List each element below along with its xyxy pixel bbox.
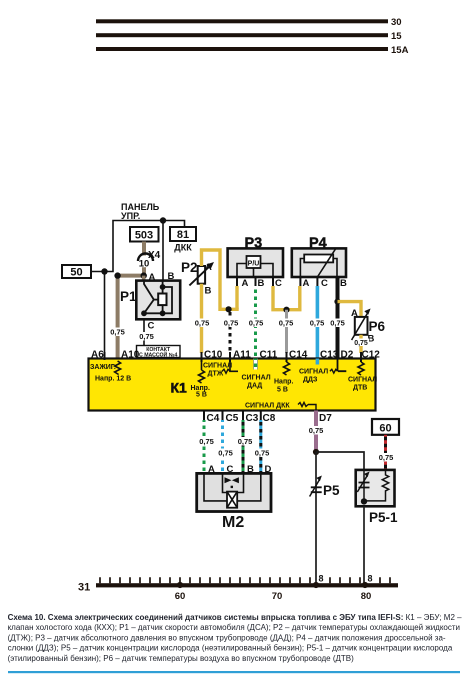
svg-text:СИГНАЛ ДКК: СИГНАЛ ДКК [245, 403, 290, 410]
bus junction dots [177, 582, 183, 588]
wire: C4 to M2 A (green/white) [203, 420, 206, 473]
svg-text:P1: P1 [120, 289, 137, 304]
svg-text:СИГНАЛ: СИГНАЛ [299, 369, 328, 376]
node D7 [313, 449, 319, 455]
svg-text:B: B [340, 278, 347, 289]
wire: C5 to M2 C (cyan/white) [221, 420, 224, 473]
svg-text:С5: С5 [226, 413, 239, 424]
svg-text:0,75: 0,75 [330, 319, 345, 328]
oxygen sensor P5 [310, 476, 340, 499]
divider line [8, 671, 460, 673]
bus position labels [175, 591, 372, 602]
wire: C3 to M2 B (green/black) [242, 420, 245, 473]
svg-text:5 В: 5 В [196, 392, 207, 399]
valve bowtie [225, 477, 239, 483]
box 503 [130, 227, 159, 242]
svg-text:0,75: 0,75 [195, 319, 210, 328]
node on D2 wire [334, 299, 340, 305]
node junction on panel feed [160, 217, 166, 223]
svg-text:A: A [205, 262, 212, 273]
svg-text:M2: M2 [222, 514, 244, 531]
svg-text:P6: P6 [369, 319, 386, 334]
wire: node to P6 (yellow) [338, 302, 362, 317]
svg-text:ДАД: ДАД [247, 383, 262, 390]
svg-text:К1: К1 [171, 380, 188, 396]
svg-text:503: 503 [135, 230, 153, 242]
M2 terminal letters [208, 464, 272, 475]
svg-text:0,75: 0,75 [238, 437, 253, 446]
wire: P6 B to C12 (yellow) [359, 335, 362, 353]
svg-text:С11: С11 [260, 350, 278, 361]
svg-text:C: C [148, 321, 155, 332]
svg-text:УПР.: УПР. [121, 211, 140, 221]
wire: node to A11 (black/white stripe) [229, 312, 232, 353]
bus bar 15A [96, 45, 409, 56]
wire: P2 B to C10 (yellow) [200, 284, 203, 353]
wire: connector to node A (brown) [142, 267, 146, 276]
svg-text:С3: С3 [246, 413, 259, 424]
svg-text:C: C [321, 278, 328, 289]
wire: P5-1 to bus [363, 506, 365, 585]
node A of P1 [141, 272, 147, 278]
caption text [8, 613, 463, 663]
svg-text:0,75: 0,75 [139, 332, 154, 341]
wire: P3 B to C11 (green/white stripe) [254, 286, 257, 359]
svg-text:А6: А6 [91, 350, 104, 361]
air temp sensor P6 [351, 308, 386, 345]
K1 pin labels top [91, 350, 380, 361]
wire A into P1 [142, 276, 146, 282]
node: P2/P3 to A11 [226, 306, 232, 312]
svg-text:0,75: 0,75 [255, 449, 270, 458]
svg-text:P5: P5 [323, 483, 340, 498]
bus ticks [100, 577, 390, 583]
svg-text:D7: D7 [319, 413, 332, 424]
oxygen sensor P5-1 [356, 470, 398, 525]
node junction at 50 wire [101, 268, 107, 274]
K1 internal: D2 lead [299, 359, 346, 384]
ECU block K1 (yellow) [89, 359, 376, 411]
wire: P2 A loop to node (yellow) [202, 250, 239, 309]
wire: node to A6 (thin) [104, 272, 106, 359]
wire: P4 C to C13 (cyan) [316, 286, 320, 365]
svg-text:ДТВ: ДТВ [353, 385, 367, 392]
svg-text:80: 80 [361, 591, 372, 602]
svg-text:Схема 10. Схема электрических: Схема 10. Схема электрических соединений… [8, 613, 463, 622]
svg-text:81: 81 [177, 229, 189, 241]
svg-text:A: A [242, 278, 249, 289]
wire: C11 stub inside K1 [253, 359, 258, 370]
K1 internal: ignition squiggle A10 [90, 361, 131, 383]
svg-text:0,75: 0,75 [310, 319, 325, 328]
svg-text:слонки (ДДЗ); Р5 – датчик конц: слонки (ДДЗ); Р5 – датчик концентрации к… [8, 644, 453, 653]
K1 internal: C14 squiggle [274, 362, 293, 394]
box 60 [372, 419, 399, 435]
svg-text:0,75: 0,75 [279, 319, 294, 328]
svg-text:0,75: 0,75 [224, 319, 239, 328]
box 81 ДКК [170, 227, 196, 253]
svg-text:С8: С8 [263, 413, 276, 424]
svg-text:8: 8 [319, 574, 324, 584]
wire: node to P5-1 [316, 452, 364, 470]
svg-text:С10: С10 [204, 350, 223, 361]
wire: node down through P5 to bus [315, 452, 317, 585]
svg-text:8: 8 [368, 574, 373, 584]
svg-text:P/U: P/U [248, 260, 260, 267]
wire: C8 to M2 D (cyan/black) [259, 420, 262, 473]
wire: 50 box to node and panel feed [91, 221, 185, 272]
svg-text:ДТЖ: ДТЖ [208, 371, 224, 378]
svg-text:5 В: 5 В [277, 387, 288, 394]
svg-text:0,75: 0,75 [249, 319, 264, 328]
node to C14 [283, 307, 289, 313]
svg-text:30: 30 [391, 17, 402, 28]
svg-text:А10: А10 [121, 350, 140, 361]
node on brown wire [114, 272, 120, 278]
wire: P4 B to D2 (black) [336, 277, 340, 369]
svg-text:B: B [258, 278, 265, 289]
terminal stubs P4 [300, 277, 317, 286]
box 50 [62, 265, 91, 279]
svg-text:ЗАЖИГ.: ЗАЖИГ. [90, 364, 116, 371]
svg-text:С13: С13 [320, 350, 339, 361]
connector X4 arc [138, 254, 153, 261]
resistor zigzag [364, 470, 389, 501]
svg-text:ДДЗ: ДДЗ [303, 377, 318, 384]
K1 internal: signal ДТЖ squiggle C10 [199, 362, 233, 383]
terminal ticks on K1 top [105, 352, 362, 362]
terminal ticks on K1 bottom [204, 411, 261, 421]
wire: P1 C to ground contact [143, 319, 145, 345]
svg-text:Напр.: Напр. [274, 379, 293, 386]
terminal stubs P3 [237, 277, 273, 286]
svg-text:(этилированный бензин); Р6 – д: (этилированный бензин); Р6 – датчик темп… [8, 654, 355, 663]
bus bar 30 [96, 17, 402, 28]
svg-text:70: 70 [272, 591, 283, 602]
svg-text:31: 31 [78, 582, 90, 594]
K1 bottom pin labels [207, 413, 333, 424]
label 0,75 on C12 wire [353, 339, 369, 347]
svg-text:С12: С12 [362, 350, 381, 361]
idle air valve M2 [197, 473, 271, 531]
svg-text:15: 15 [391, 31, 402, 42]
svg-text:0,75: 0,75 [218, 449, 233, 458]
svg-text:60: 60 [379, 423, 391, 435]
throttle sensor P4 [292, 236, 347, 290]
svg-text:клапан холостого хода (КХХ); Р: клапан холостого хода (КХХ); Р1 – датчик… [8, 623, 460, 632]
svg-text:С4: С4 [207, 413, 220, 424]
svg-text:0,75: 0,75 [309, 426, 324, 435]
svg-text:60: 60 [175, 591, 186, 602]
ground contact box КОНТАКТ С МАССОЙ №4 [137, 346, 181, 359]
K1 internal: C12 squiggle ДТВ [348, 362, 377, 392]
wire size labels row [109, 319, 346, 337]
svg-text:0,75: 0,75 [354, 340, 368, 347]
svg-text:A: A [351, 308, 358, 319]
svg-text:Напр. 12 В: Напр. 12 В [95, 376, 131, 383]
K1 internal: СИГНАЛ ДКК to D7 [245, 403, 316, 411]
MAP sensor P3 [228, 236, 283, 290]
wire: 503 down to connector X4 (brown) [142, 242, 146, 256]
bus bar 15 [96, 31, 402, 42]
svg-text:ДКК: ДКК [174, 243, 192, 253]
coolant temp sensor P2 [181, 260, 214, 297]
wire: C13 stub inside K1 [316, 359, 320, 365]
wire: D7 (purple) [314, 411, 318, 453]
wire: node to C14 (gray) [285, 310, 288, 353]
svg-text:С14: С14 [289, 350, 308, 361]
wire: P3 C / P4 A loop to C14 node (yellow) [273, 286, 300, 310]
svg-text:15A: 15A [391, 45, 409, 56]
svg-text:P5-1: P5-1 [369, 510, 398, 525]
svg-text:P2: P2 [181, 260, 198, 275]
wire: branch down to B of P1 [162, 221, 164, 289]
ground bus 31 [78, 582, 398, 594]
svg-text:50: 50 [70, 267, 82, 279]
svg-text:C: C [275, 278, 282, 289]
wire: brown branch to A10 [118, 276, 144, 359]
svg-text:СИГНАЛ: СИГНАЛ [348, 377, 377, 384]
svg-text:0,75: 0,75 [379, 453, 394, 462]
svg-text:(ДТЖ); Р3 – датчик абсолютного: (ДТЖ); Р3 – датчик абсолютного давления … [8, 633, 446, 642]
svg-text:0,75: 0,75 [110, 328, 125, 337]
svg-text:СИГНАЛ: СИГНАЛ [242, 375, 271, 382]
wire labels M2 [198, 437, 271, 458]
K1 internal: A11 lead [222, 362, 271, 390]
wire: 60 to P5-1 (red/black) [384, 435, 387, 470]
wire: P3 A down to node (yellow) [235, 286, 238, 309]
svg-text:С МАССОЙ №4: С МАССОЙ №4 [139, 351, 177, 359]
crossed box [227, 492, 237, 508]
svg-text:B: B [205, 286, 212, 297]
speed sensor P1 [120, 281, 180, 320]
svg-text:D2: D2 [341, 350, 354, 361]
svg-text:А11: А11 [233, 350, 251, 361]
svg-text:0,75: 0,75 [199, 437, 214, 446]
svg-text:A: A [303, 278, 310, 289]
svg-text:X4: X4 [148, 250, 161, 261]
